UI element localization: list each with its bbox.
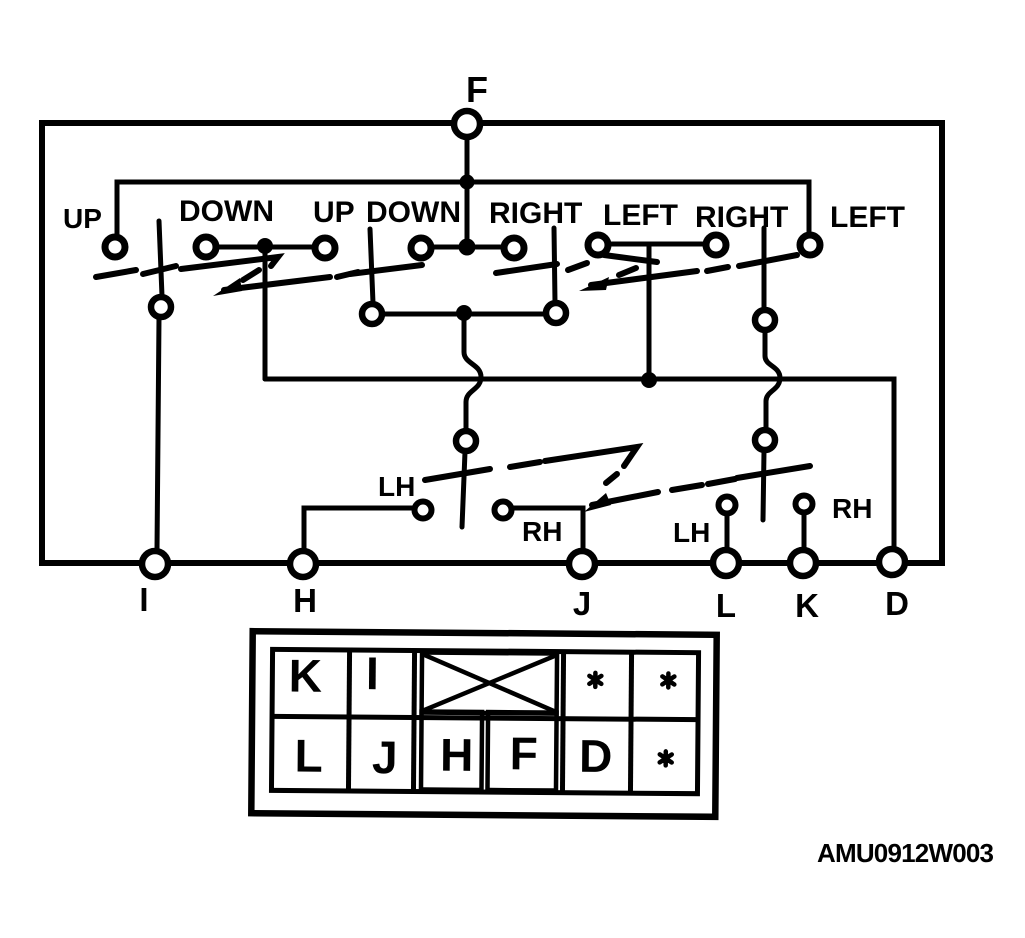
link stroke m3 — [545, 447, 637, 466]
svg-text:LEFT: LEFT — [830, 201, 905, 234]
svg-text:L: L — [294, 730, 323, 782]
wire LH contact to terminal H — [304, 508, 414, 549]
terminal K — [790, 550, 816, 576]
contact RH (right changeover) — [796, 496, 813, 513]
wire node B down to long bus — [647, 246, 652, 378]
wire DOWN1 to UP2 — [212, 245, 320, 250]
long middle bus wire to terminal D — [265, 379, 894, 548]
link arrowhead left — [213, 278, 242, 296]
svg-text:F: F — [466, 69, 488, 110]
contact RH (left changeover) — [495, 502, 512, 519]
link stroke a14 crossing S4 — [739, 255, 797, 266]
wire hop over long bus (right) — [765, 331, 780, 429]
contact DOWN2 — [411, 238, 431, 258]
contact UP1 — [105, 237, 125, 257]
wire RH contact to terminal K — [802, 513, 807, 548]
connector pin star 2 — [662, 673, 674, 687]
svg-text:RIGHT: RIGHT — [695, 201, 788, 234]
switch S1 bar — [159, 221, 162, 296]
svg-text:F: F — [510, 727, 539, 779]
svg-text:H: H — [440, 729, 474, 781]
svg-text:D: D — [579, 730, 613, 782]
link arrow shaft m5 — [592, 492, 658, 505]
link dash a6 — [337, 272, 358, 277]
link stroke a10 — [604, 255, 657, 262]
svg-text:L: L — [716, 587, 736, 624]
switch S2 bar — [370, 229, 373, 303]
link dash a8 crossing S3 — [496, 264, 557, 273]
contact LH (right changeover) — [719, 497, 736, 514]
link dash m4 — [606, 474, 617, 483]
connector blanked cell X box — [422, 653, 557, 714]
svg-text:RIGHT: RIGHT — [489, 197, 582, 230]
link dash a11 — [619, 268, 636, 275]
svg-text:H: H — [293, 582, 317, 619]
wire S2/S3 common — [383, 312, 545, 317]
node junction S2/S3 common — [456, 305, 472, 321]
dashed mechanical link, changeover row — [425, 447, 810, 505]
connector cell F box — [487, 712, 556, 791]
link stroke a7 crossing S2 — [350, 265, 422, 274]
connector cell H box — [421, 712, 482, 790]
terminal L — [713, 550, 739, 576]
contact LEFT2 — [800, 235, 820, 255]
link dash m6 — [672, 485, 702, 490]
node F junction on contact row — [459, 239, 476, 256]
svg-text:LH: LH — [378, 471, 415, 502]
link dash a1 — [96, 270, 136, 277]
link stroke m1 crossing S5 — [425, 469, 490, 480]
changeover switch S5 bar — [462, 452, 465, 527]
contact LEFT1 — [588, 235, 608, 255]
svg-text:DOWN: DOWN — [179, 195, 274, 228]
link arrow shaft a12 — [591, 271, 697, 285]
connector divider I/X J/H — [413, 650, 414, 791]
wire S1 output to terminal I — [157, 318, 159, 550]
contact DOWN1 — [196, 237, 216, 257]
svg-text:LEFT: LEFT — [603, 199, 678, 232]
link stroke m8 crossing S6 — [737, 466, 810, 478]
wire LEFT1 to RIGHT2 — [605, 242, 710, 247]
wire F stem — [465, 130, 470, 242]
link dash a2 crossing S1 — [143, 266, 176, 274]
link arrow shaft a5 — [224, 277, 330, 290]
pole circle S6 — [755, 430, 775, 450]
switch body outer box — [42, 123, 942, 563]
link arrowhead middle — [584, 493, 611, 512]
node junction at long bus — [641, 372, 657, 388]
wire hop over long bus (center) — [464, 312, 481, 430]
contact LH (left changeover) — [415, 502, 432, 519]
switch S4 bar — [762, 228, 767, 309]
link dash a4 — [243, 270, 259, 280]
contact UP2 — [315, 238, 335, 258]
svg-text:UP: UP — [313, 196, 355, 229]
pole circle S1 — [151, 297, 171, 317]
terminal I — [142, 551, 168, 577]
wire DOWN2 to RIGHT1 — [428, 245, 508, 250]
svg-text:I: I — [366, 647, 379, 699]
connector X diagonal 2 — [423, 655, 555, 712]
link arrowhead right — [579, 277, 609, 291]
wire node A down to long bus — [263, 248, 268, 379]
wire RH contact to terminal J — [512, 508, 583, 549]
pole circle S2 — [362, 304, 382, 324]
connector pin star 1 — [589, 673, 601, 687]
contact RIGHT2 — [706, 235, 726, 255]
link dash a13 — [707, 267, 728, 271]
terminal D — [879, 549, 905, 575]
svg-text:RH: RH — [522, 516, 562, 547]
svg-text:DOWN: DOWN — [366, 196, 461, 229]
bus wire from F to UP/LEFT contacts — [117, 182, 809, 235]
connector divider */* D/* — [630, 652, 631, 793]
connector inner frame — [271, 649, 698, 793]
svg-text:I: I — [139, 581, 148, 618]
node A junction — [257, 238, 273, 254]
svg-text:D: D — [885, 585, 909, 622]
svg-text:LH: LH — [673, 517, 710, 548]
connector X diagonal 1 — [423, 655, 555, 712]
connector divider X/* F/D — [562, 652, 563, 793]
connector pinout box — [251, 631, 716, 817]
svg-text:K: K — [795, 587, 819, 624]
svg-text:J: J — [573, 585, 591, 622]
connector mid rail — [272, 716, 698, 719]
wire LH contact to terminal L — [725, 514, 730, 548]
svg-text:AMU0912W003: AMU0912W003 — [817, 838, 994, 868]
pole circle S4 — [755, 310, 775, 330]
dashed mechanical link, top row — [96, 255, 797, 290]
connector outer shell — [251, 631, 716, 817]
changeover switch S6 bar — [763, 451, 764, 520]
pole circle S5 — [456, 431, 476, 451]
terminal F — [454, 111, 480, 137]
svg-text:K: K — [289, 649, 323, 701]
connector divider K/I L/J — [348, 650, 349, 791]
terminal H — [290, 551, 316, 577]
svg-text:J: J — [372, 731, 398, 783]
node junction on bus — [460, 175, 475, 190]
link dash a9 — [568, 263, 587, 270]
svg-text:UP: UP — [63, 203, 102, 234]
link stroke a3 — [181, 257, 278, 269]
switch S3 bar — [554, 228, 555, 302]
connector pin star 3 — [660, 751, 672, 765]
pole circle S3 — [546, 303, 566, 323]
svg-text:RH: RH — [832, 493, 872, 524]
link dash m7 — [708, 479, 735, 484]
link dash m2 — [510, 462, 540, 467]
terminal J — [569, 551, 595, 577]
contact RIGHT1 — [504, 238, 524, 258]
